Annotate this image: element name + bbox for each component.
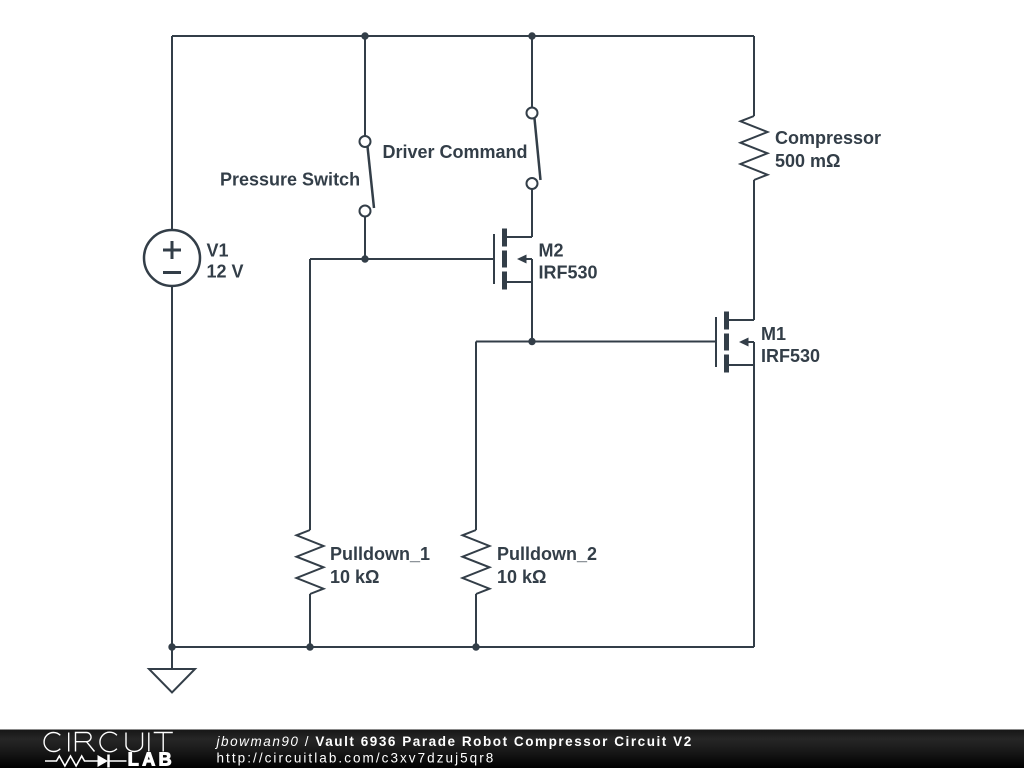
switch SW2 wire bottom to M2 drain — [531, 189, 533, 237]
wire top rail — [172, 35, 754, 37]
svg-text:Pressure Switch: Pressure Switch — [220, 170, 360, 190]
svg-text:500 mΩ: 500 mΩ — [775, 151, 840, 171]
svg-text:V1: V1 — [207, 241, 229, 261]
transistor M1 channel bars — [724, 312, 729, 373]
logo resistor-diode squiggle — [45, 755, 127, 768]
svg-text:Pulldown_2: Pulldown_2 — [497, 544, 597, 564]
ground triangle — [149, 669, 195, 693]
wire right vertical top rail to compressor — [753, 36, 755, 116]
wire Pulldown_2 bottom — [475, 594, 477, 647]
svg-text:Driver Command: Driver Command — [383, 142, 528, 162]
wire M1 gate rail — [476, 341, 715, 343]
resistor Pulldown_2 zigzag — [463, 530, 490, 594]
wire M1 source down to bottom rail — [753, 342, 755, 647]
switch SW1 Pressure Switch wire from top rail — [364, 36, 366, 136]
junction node pulldown_2 bottom — [472, 643, 479, 650]
junction node M2 gate — [361, 255, 368, 262]
svg-text:http://circuitlab.com/c3xv7dzu: http://circuitlab.com/c3xv7dzuj5qr8 — [217, 750, 496, 765]
wire bottom rail — [172, 646, 754, 648]
wire Pulldown_1 bottom — [309, 594, 311, 647]
transistor M1 body lead — [748, 341, 754, 343]
wire gate node rail M2 — [310, 258, 493, 260]
transistor M2 gate bar — [493, 234, 495, 284]
transistor M2 channel bars — [505, 229, 727, 373]
wire V1 bottom to ground rail — [171, 286, 173, 647]
svg-text:Compressor: Compressor — [775, 128, 881, 148]
wire Pulldown_1 top corner down — [309, 259, 311, 530]
transistor M2 body lead — [526, 258, 532, 260]
junction node top rail pressure switch — [361, 32, 368, 39]
svg-text:IRF530: IRF530 — [761, 346, 820, 366]
svg-text:12 V: 12 V — [207, 262, 244, 282]
svg-text:M1: M1 — [761, 324, 786, 344]
svg-text:LAB: LAB — [128, 750, 175, 768]
transistor M2 body arrow — [517, 255, 527, 264]
switch SW2 Driver Command wire from top rail — [531, 36, 533, 108]
transistor M1 gate bar — [715, 317, 717, 367]
junction node ground tap — [168, 643, 175, 650]
svg-text:M2: M2 — [539, 241, 564, 261]
svg-text:jbowman90 / Vault 6936 Parade: jbowman90 / Vault 6936 Parade Robot Comp… — [215, 734, 693, 749]
wire Pulldown_2 top corner down — [475, 342, 477, 531]
voltage source V1 circle — [144, 230, 200, 286]
transistor M2 drain lead — [507, 236, 532, 238]
svg-text:10 kΩ: 10 kΩ — [497, 567, 546, 587]
switch SW1 terminal circles — [360, 108, 538, 217]
junction node top rail driver command — [528, 32, 535, 39]
wire compressor bottom to M1 drain — [753, 180, 755, 320]
transistor M1 source lead — [729, 364, 754, 366]
junction node pulldown_1 bottom — [306, 643, 313, 650]
voltage source V1 plus sign — [163, 241, 181, 273]
resistor Compressor 500 mOhm zigzag — [741, 116, 768, 180]
wire left vertical from top rail to V1 — [171, 36, 173, 230]
ground stub — [171, 647, 173, 669]
switch SW1 wire bottom to gate node — [364, 217, 366, 260]
junction node M1 gate — [528, 338, 535, 345]
footer bar — [0, 730, 1024, 768]
resistor Pulldown_1 zigzag — [297, 530, 324, 594]
voltage source V1 minus sign — [163, 271, 181, 274]
switch SW2 blade — [535, 119, 541, 181]
switch SW1 blade — [368, 147, 375, 209]
logo diode triangle — [98, 755, 109, 767]
svg-text:10 kΩ: 10 kΩ — [330, 567, 379, 587]
svg-text:IRF530: IRF530 — [539, 263, 598, 283]
logo CIRCUIT letters — [44, 732, 173, 752]
transistor M1 drain lead — [729, 319, 754, 321]
transistor M2 source lead — [507, 281, 532, 283]
transistor M1 body arrow — [739, 338, 749, 347]
svg-text:Pulldown_1: Pulldown_1 — [330, 544, 430, 564]
wire M2 source down to M1 gate node — [531, 259, 533, 342]
switch SW2 terminal circles — [527, 108, 538, 119]
